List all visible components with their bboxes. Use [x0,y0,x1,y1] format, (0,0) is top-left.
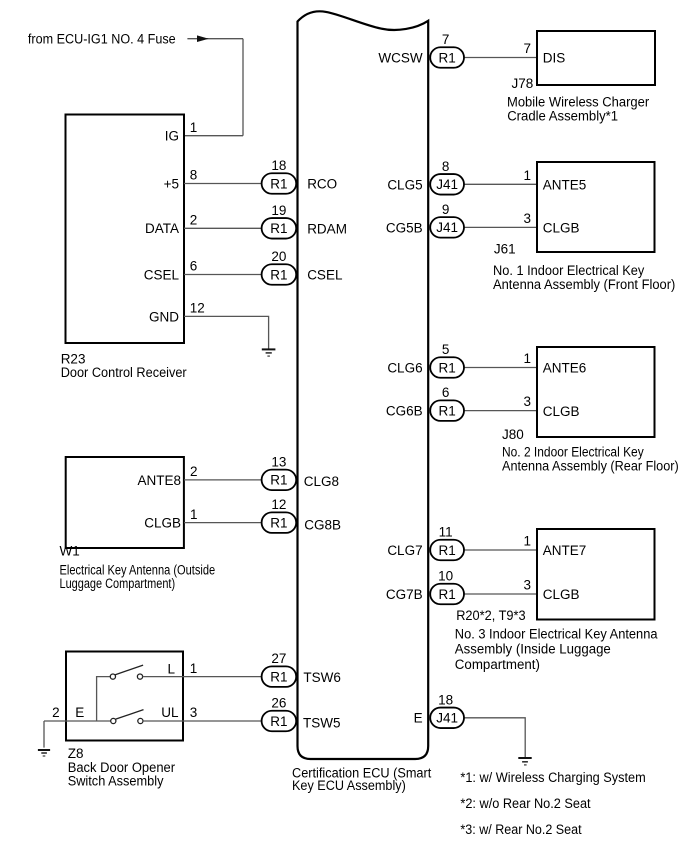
svg-text:GND: GND [149,309,179,324]
connector oval R1 pin 7 (WCSW) [430,32,464,68]
svg-text:R20*2, T9*3: R20*2, T9*3 [456,608,525,623]
svg-text:CG6B: CG6B [386,404,423,419]
svg-text:R1: R1 [438,543,455,558]
svg-text:R1: R1 [270,267,287,282]
svg-text:RDAM: RDAM [307,221,347,236]
box ANTE7 (R20/T9) [537,529,655,620]
svg-text:R1: R1 [438,50,455,65]
wire fuse feed horizontal with arrow [187,38,243,40]
svg-text:13: 13 [271,454,286,469]
wire switch common link [97,677,111,721]
svg-text:RCO: RCO [307,177,337,192]
svg-text:R1: R1 [270,714,287,729]
svg-text:*1: w/ Wireless Charging Syste: *1: w/ Wireless Charging System [460,770,645,785]
svg-text:CLG6: CLG6 [387,360,422,375]
svg-text:R1: R1 [270,176,287,191]
connector oval R1 pin 26 (TSW5) [262,696,297,732]
svg-text:*3: w/ Rear No.2 Seat: *3: w/ Rear No.2 Seat [460,822,581,837]
svg-text:No. 1 Indoor Electrical Key: No. 1 Indoor Electrical Key [493,263,645,278]
wire E pin 2 [44,720,111,722]
svg-text:11: 11 [439,525,453,540]
wire TSW5 (UL pin 3) [143,720,262,722]
wire CLG6 [464,367,537,369]
svg-text:IG: IG [165,129,179,144]
svg-text:1: 1 [523,534,531,549]
svg-text:Antenna Assembly (Front Floor): Antenna Assembly (Front Floor) [493,277,675,292]
switch L contact right [137,674,142,679]
svg-text:*2: w/o Rear No.2 Seat: *2: w/o Rear No.2 Seat [460,796,590,811]
svg-text:CLGB: CLGB [144,516,181,531]
svg-text:TSW6: TSW6 [303,670,341,685]
svg-text:12: 12 [190,301,205,316]
ECU body (Certification ECU) [298,11,429,759]
connector oval R1 pin 5 (CLG6) [430,342,464,378]
svg-text:6: 6 [442,385,450,400]
svg-text:Key ECU Assembly): Key ECU Assembly) [292,778,406,793]
connector oval R1 pin 12 (CG8B) [262,497,297,533]
svg-text:1: 1 [190,507,198,522]
svg-text:26: 26 [271,696,286,711]
svg-text:Assembly (Inside Luggage: Assembly (Inside Luggage [455,641,611,656]
svg-text:No. 2 Indoor Electrical Key: No. 2 Indoor Electrical Key [502,444,644,459]
svg-text:E: E [414,711,423,726]
wire CLG5 [464,183,537,185]
svg-text:Antenna Assembly (Rear Floor): Antenna Assembly (Rear Floor) [502,459,679,474]
svg-text:CLG8: CLG8 [304,474,339,489]
wire IG pin 1 [184,135,243,137]
svg-text:L: L [167,662,175,677]
svg-text:1: 1 [523,168,531,183]
svg-text:2: 2 [52,705,60,720]
svg-text:2: 2 [190,464,198,479]
svg-text:J41: J41 [436,220,458,235]
svg-text:5: 5 [442,342,450,357]
svg-text:J78: J78 [512,76,534,91]
wire to ground (Z8) [43,721,45,748]
svg-text:27: 27 [271,651,286,666]
svg-text:20: 20 [271,249,286,264]
wire fuse feed vertical [242,39,244,136]
wire E to ground [464,718,525,757]
wire WCSW to DIS [464,57,537,59]
svg-text:WCSW: WCSW [378,50,422,65]
switch L lever [115,665,143,675]
svg-text:R1: R1 [438,587,455,602]
svg-text:Compartment): Compartment) [455,657,540,672]
svg-text:1: 1 [523,351,531,366]
connector oval R1 pin 20 (CSEL) [262,249,297,285]
wire GND [184,316,269,349]
switch UL contact left [111,718,116,723]
svg-text:3: 3 [190,705,198,720]
svg-text:9: 9 [442,202,450,217]
wire CSEL to R1 [184,274,262,276]
svg-text:6: 6 [190,259,198,274]
connector oval J41 pin 9 (CG5B) [430,202,464,238]
wire DATA to R1 [184,227,262,229]
svg-text:ANTE8: ANTE8 [137,473,181,488]
switch UL lever [115,710,143,720]
svg-text:Mobile Wireless Charger: Mobile Wireless Charger [507,95,650,110]
svg-text:8: 8 [190,168,198,183]
svg-text:ANTE7: ANTE7 [543,543,587,558]
wire CG5B [464,226,537,228]
svg-text:3: 3 [523,578,531,593]
svg-text:E: E [75,705,84,720]
svg-text:CLGB: CLGB [543,404,580,419]
svg-text:18: 18 [271,158,286,173]
svg-text:Luggage Compartment): Luggage Compartment) [60,576,176,591]
svg-text:18: 18 [438,692,453,707]
wire CG6B [464,410,537,412]
svg-text:R1: R1 [270,473,287,488]
svg-text:CLGB: CLGB [543,587,580,602]
connector oval R1 pin 11 (CLG7) [430,525,464,561]
svg-text:CSEL: CSEL [144,267,180,282]
svg-text:7: 7 [523,41,531,56]
connector oval R1 pin 27 (TSW6) [262,651,297,687]
svg-text:from ECU-IG1 NO. 4 Fuse: from ECU-IG1 NO. 4 Fuse [28,32,176,47]
wire TSW6 (L pin 1) [143,676,262,678]
svg-text:W1: W1 [60,544,80,559]
connector oval J41 pin 18 (E) [430,692,464,728]
svg-text:Z8: Z8 [68,746,84,761]
svg-text:TSW5: TSW5 [303,716,341,731]
wire CLGB to R1 [184,522,262,524]
svg-text:ANTE6: ANTE6 [543,361,587,376]
svg-text:J61: J61 [494,241,516,256]
svg-text:1: 1 [190,120,198,135]
svg-text:12: 12 [271,497,286,512]
svg-text:R1: R1 [270,515,287,530]
box Z8 Back Door Opener Switch Assembly [66,652,183,741]
svg-text:8: 8 [442,159,450,174]
connector oval R1 pin 18 (RCO) [262,158,297,194]
svg-text:J80: J80 [502,427,524,442]
wire ANTE8 to R1 [184,479,262,481]
svg-text:7: 7 [442,32,450,47]
ground (Z8) [38,749,50,757]
svg-text:Cradle Assembly*1: Cradle Assembly*1 [507,109,618,124]
box W1 Electrical Key Antenna [66,457,184,548]
svg-text:1: 1 [190,661,198,676]
svg-text:CLGB: CLGB [543,221,580,236]
svg-text:Door Control Receiver: Door Control Receiver [61,365,187,380]
box DIS (J78) [537,31,655,85]
wire CG7B [464,593,537,595]
wire +5 to R1 [184,183,262,185]
svg-text:Switch Assembly: Switch Assembly [68,774,164,789]
switch UL contact right [138,718,143,723]
box ANTE5 (J61) [537,162,655,252]
ground (R23 GND) [262,348,276,356]
wire CLG7 [464,549,537,551]
svg-text:R1: R1 [438,360,455,375]
svg-text:ANTE5: ANTE5 [543,178,587,193]
svg-text:CLG5: CLG5 [387,177,422,192]
svg-text:No. 3 Indoor Electrical Key An: No. 3 Indoor Electrical Key Antenna [455,627,658,642]
svg-text:19: 19 [271,203,286,218]
box ANTE6 (J80) [537,347,655,437]
connector oval R1 pin 10 (CG7B) [430,569,464,605]
svg-text:R1: R1 [270,221,287,236]
svg-text:CG8B: CG8B [304,518,341,533]
connector oval R1 pin 19 (RDAM) [262,203,297,239]
arrowhead [197,35,209,42]
svg-text:CG5B: CG5B [386,220,423,235]
ground (E) [518,757,531,766]
connector oval R1 pin 6 (CG6B) [430,385,464,421]
svg-text:R1: R1 [270,669,287,684]
connector oval J41 pin 8 (CLG5) [430,159,464,195]
svg-text:J41: J41 [436,177,458,192]
svg-text:CG7B: CG7B [386,587,423,602]
svg-text:3: 3 [523,211,531,226]
box R23 Door Control Receiver [66,115,185,344]
svg-text:2: 2 [190,213,198,228]
svg-text:J41: J41 [436,711,458,726]
svg-text:DIS: DIS [543,51,566,66]
svg-text:+5: +5 [164,176,179,191]
svg-text:CLG7: CLG7 [387,543,422,558]
svg-text:R1: R1 [438,403,455,418]
svg-text:DATA: DATA [145,221,179,236]
svg-text:10: 10 [438,569,453,584]
svg-text:CSEL: CSEL [307,268,343,283]
svg-text:UL: UL [161,705,179,720]
svg-text:3: 3 [523,394,531,409]
connector oval R1 pin 13 (CLG8) [262,454,297,490]
switch L contact left [110,674,115,679]
